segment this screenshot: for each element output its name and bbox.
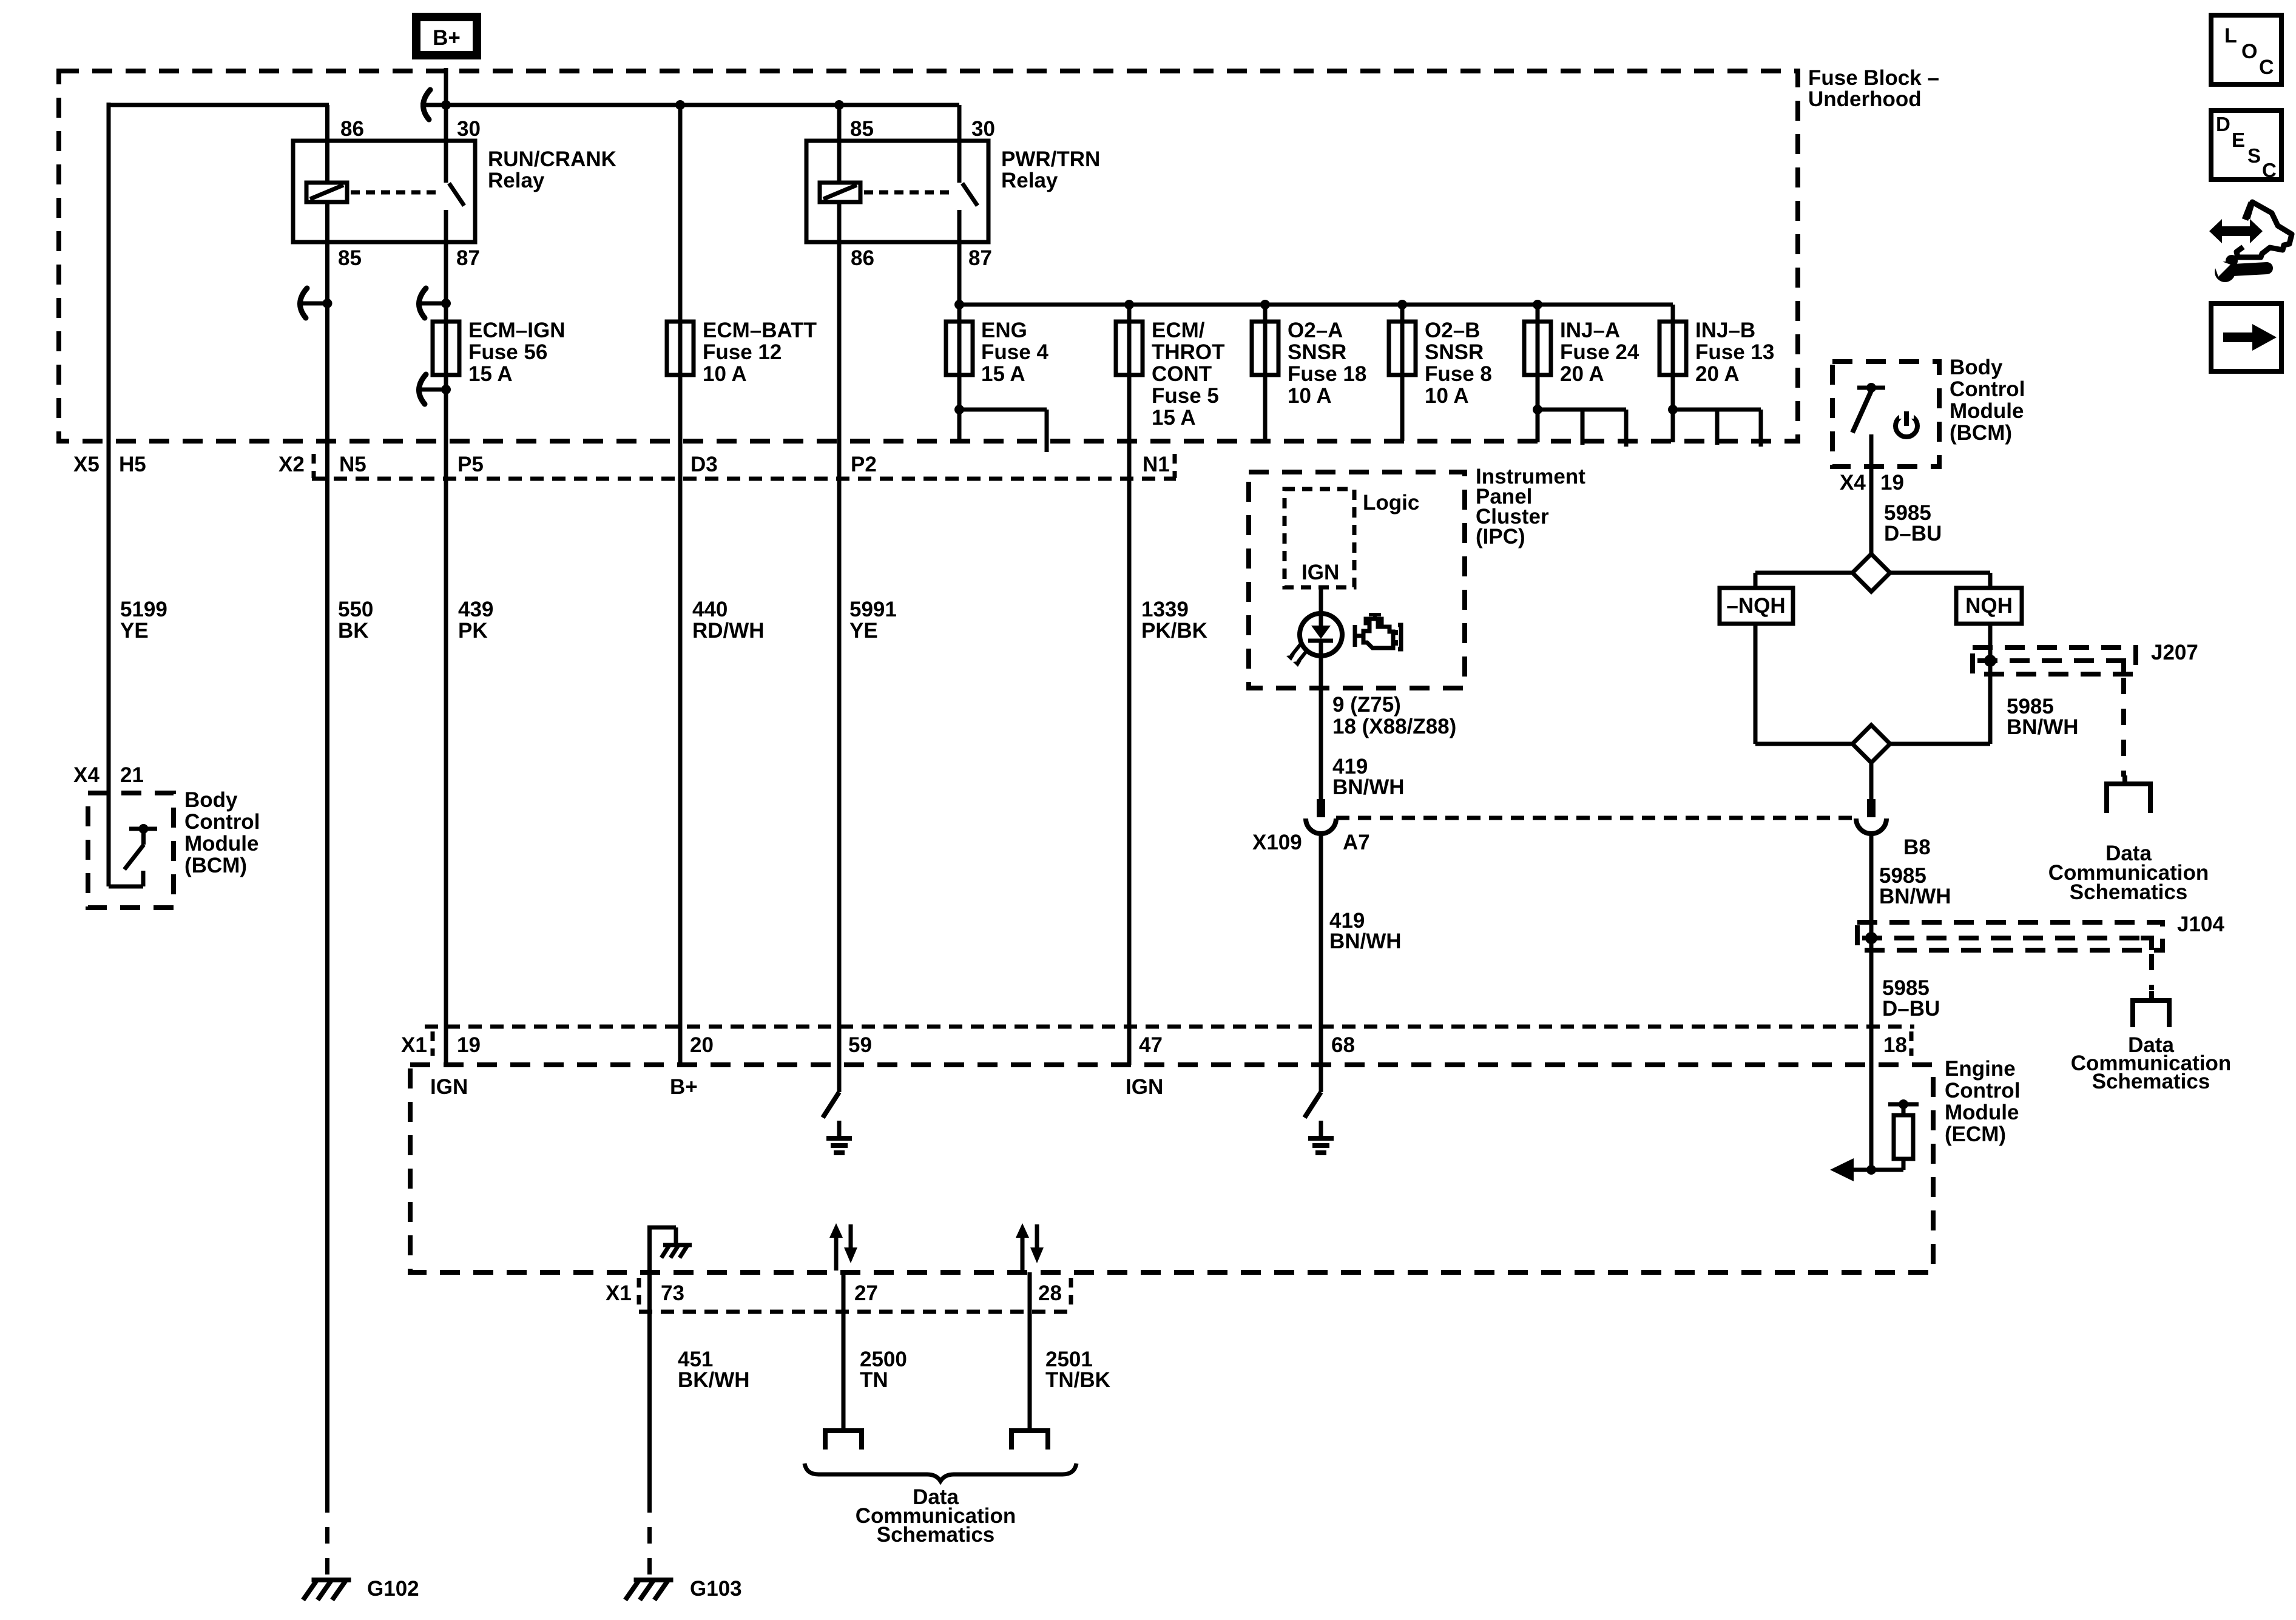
svg-text:PK: PK [458, 619, 488, 643]
svg-text:85: 85 [338, 246, 362, 270]
svg-text:21: 21 [120, 763, 144, 787]
svg-text:Fuse 56: Fuse 56 [468, 340, 547, 364]
svg-text:SNSR: SNSR [1288, 340, 1346, 364]
svg-text:Fuse 4: Fuse 4 [981, 340, 1048, 364]
svg-text:TN/BK: TN/BK [1045, 1368, 1110, 1392]
svg-text:30: 30 [971, 117, 995, 141]
svg-text:550: 550 [338, 598, 373, 621]
svg-text:5199: 5199 [120, 598, 167, 621]
svg-text:O2–A: O2–A [1288, 319, 1343, 342]
svg-text:15 A: 15 A [1152, 406, 1196, 430]
svg-text:Schematics: Schematics [2092, 1070, 2210, 1093]
svg-text:20 A: 20 A [1560, 362, 1604, 386]
svg-text:ECM–IGN: ECM–IGN [468, 319, 565, 342]
svg-text:10 A: 10 A [703, 362, 747, 386]
svg-text:86: 86 [340, 117, 364, 141]
svg-text:D–BU: D–BU [1884, 522, 1942, 545]
svg-text:X109: X109 [1252, 831, 1302, 854]
svg-text:73: 73 [661, 1281, 684, 1305]
svg-text:CONT: CONT [1152, 362, 1212, 386]
svg-text:ECM–BATT: ECM–BATT [703, 319, 817, 342]
svg-text:X2: X2 [279, 453, 305, 476]
svg-text:Engine: Engine [1945, 1057, 2016, 1081]
svg-text:19: 19 [1880, 471, 1904, 494]
svg-text:SNSR: SNSR [1425, 340, 1484, 364]
svg-text:Fuse 5: Fuse 5 [1152, 384, 1219, 408]
svg-text:INJ–A: INJ–A [1560, 319, 1620, 342]
svg-text:L: L [2224, 24, 2237, 47]
svg-text:15 A: 15 A [468, 362, 513, 386]
svg-text:19: 19 [457, 1033, 481, 1057]
svg-text:G102: G102 [367, 1577, 419, 1601]
svg-text:28: 28 [1038, 1281, 1062, 1305]
svg-text:10 A: 10 A [1288, 384, 1332, 408]
svg-text:Module: Module [184, 832, 258, 856]
svg-text:440: 440 [692, 598, 728, 621]
svg-text:RD/WH: RD/WH [692, 619, 765, 643]
svg-text:H5: H5 [119, 453, 146, 476]
svg-text:18: 18 [1883, 1033, 1907, 1057]
svg-text:85: 85 [850, 117, 874, 141]
svg-text:87: 87 [456, 246, 480, 270]
svg-text:C: C [2259, 56, 2274, 79]
svg-text:68: 68 [1331, 1033, 1355, 1057]
svg-text:Logic: Logic [1363, 491, 1419, 515]
svg-text:47: 47 [1139, 1033, 1163, 1057]
svg-text:INJ–B: INJ–B [1695, 319, 1755, 342]
svg-text:Relay: Relay [488, 169, 545, 192]
svg-text:1339: 1339 [1141, 598, 1189, 621]
svg-text:59: 59 [848, 1033, 872, 1057]
svg-text:N5: N5 [339, 453, 366, 476]
svg-text:RUN/CRANK: RUN/CRANK [488, 147, 616, 171]
svg-text:TN: TN [860, 1368, 888, 1392]
svg-text:ENG: ENG [981, 319, 1027, 342]
svg-text:X1: X1 [606, 1281, 632, 1305]
svg-text:J104: J104 [2177, 913, 2224, 936]
svg-text:S: S [2247, 144, 2261, 167]
svg-text:Body: Body [184, 788, 238, 812]
svg-text:9 (Z75): 9 (Z75) [1332, 693, 1401, 717]
svg-text:D–BU: D–BU [1882, 997, 1940, 1021]
svg-text:87: 87 [968, 246, 992, 270]
svg-text:Fuse 24: Fuse 24 [1560, 340, 1639, 364]
svg-text:PK/BK: PK/BK [1141, 619, 1207, 643]
svg-text:Fuse Block –: Fuse Block – [1808, 66, 1939, 90]
svg-text:N1: N1 [1143, 453, 1170, 476]
svg-text:BK/WH: BK/WH [678, 1368, 750, 1392]
svg-text:Fuse 8: Fuse 8 [1425, 362, 1492, 386]
svg-text:D: D [2216, 113, 2230, 135]
svg-text:X1: X1 [401, 1033, 427, 1057]
svg-text:C: C [2262, 159, 2277, 181]
svg-text:PWR/TRN: PWR/TRN [1001, 147, 1100, 171]
svg-text:O2–B: O2–B [1425, 319, 1480, 342]
svg-text:YE: YE [120, 619, 149, 643]
svg-text:10 A: 10 A [1425, 384, 1469, 408]
svg-text:G103: G103 [690, 1577, 742, 1601]
svg-text:Module: Module [1945, 1101, 2019, 1124]
svg-text:J207: J207 [2151, 641, 2198, 664]
svg-text:86: 86 [851, 246, 874, 270]
svg-text:Control: Control [184, 810, 260, 834]
svg-text:P5: P5 [458, 453, 484, 476]
svg-text:BK: BK [338, 619, 369, 643]
svg-text:Relay: Relay [1001, 169, 1058, 192]
svg-text:X4: X4 [1840, 471, 1866, 494]
svg-text:–NQH: –NQH [1726, 594, 1785, 618]
svg-text:Fuse 18: Fuse 18 [1288, 362, 1366, 386]
svg-text:30: 30 [457, 117, 481, 141]
svg-text:X4: X4 [73, 763, 100, 787]
svg-text:E: E [2232, 129, 2245, 151]
svg-text:YE: YE [849, 619, 878, 643]
svg-text:Schematics: Schematics [877, 1523, 995, 1547]
svg-text:Schematics: Schematics [2070, 880, 2188, 904]
svg-text:Control: Control [1950, 377, 2025, 401]
svg-text:THROT: THROT [1152, 340, 1225, 364]
svg-text:(IPC): (IPC) [1476, 525, 1525, 548]
svg-text:439: 439 [458, 598, 493, 621]
svg-text:IGN: IGN [1126, 1075, 1163, 1099]
svg-text:Module: Module [1950, 399, 2024, 423]
svg-text:Fuse 12: Fuse 12 [703, 340, 782, 364]
svg-text:Fuse 13: Fuse 13 [1695, 340, 1774, 364]
svg-text:15 A: 15 A [981, 362, 1025, 386]
svg-text:P2: P2 [851, 453, 877, 476]
svg-text:27: 27 [854, 1281, 878, 1305]
svg-text:(BCM): (BCM) [1950, 421, 2012, 445]
svg-text:IGN: IGN [430, 1075, 468, 1099]
svg-text:B+: B+ [670, 1075, 698, 1099]
svg-text:B8: B8 [1903, 835, 1931, 859]
svg-text:IGN: IGN [1302, 561, 1339, 584]
svg-text:BN/WH: BN/WH [2007, 715, 2079, 739]
svg-text:X5: X5 [73, 453, 100, 476]
svg-text:20 A: 20 A [1695, 362, 1740, 386]
svg-text:Control: Control [1945, 1079, 2020, 1102]
svg-text:B+: B+ [433, 26, 461, 50]
svg-text:NQH: NQH [1965, 594, 2013, 618]
svg-text:BN/WH: BN/WH [1329, 930, 1402, 953]
svg-text:BN/WH: BN/WH [1332, 775, 1405, 799]
svg-text:BN/WH: BN/WH [1879, 885, 1951, 908]
svg-text:O: O [2241, 40, 2257, 63]
svg-text:A7: A7 [1343, 831, 1370, 854]
svg-text:18 (X88/Z88): 18 (X88/Z88) [1332, 715, 1456, 738]
svg-text:Underhood: Underhood [1808, 87, 1922, 111]
svg-text:Body: Body [1950, 356, 2003, 379]
svg-text:(ECM): (ECM) [1945, 1122, 2006, 1146]
svg-text:ECM/: ECM/ [1152, 319, 1205, 342]
svg-text:(BCM): (BCM) [184, 854, 247, 877]
svg-text:D3: D3 [690, 453, 718, 476]
svg-text:20: 20 [690, 1033, 714, 1057]
svg-text:5991: 5991 [849, 598, 897, 621]
